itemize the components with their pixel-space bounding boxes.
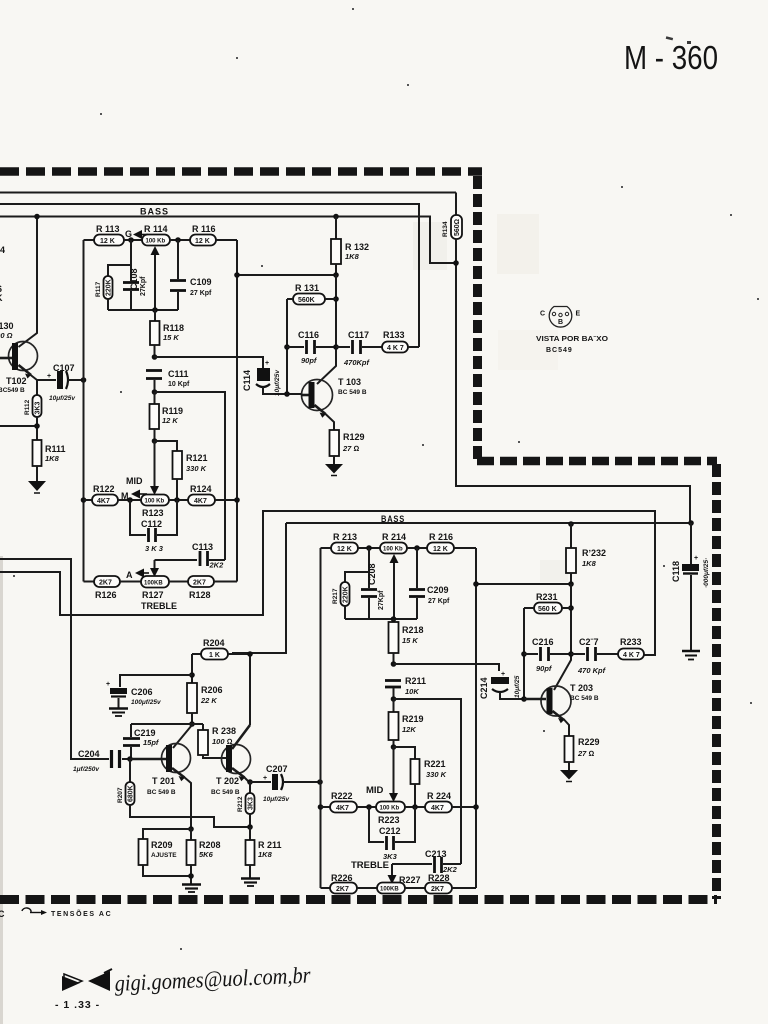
svg-text:T 202: T 202 [216,776,239,786]
svg-text:R 238: R 238 [212,726,236,736]
wire: R207 bottom to R211/R212 node [130,805,250,827]
capacitor C113 [155,542,226,570]
resistor R133 [382,330,419,353]
svg-text:3K3: 3K3 [248,797,255,810]
shield border: right vertical upper [473,176,482,459]
svg-text:T 201: T 201 [152,776,175,786]
resistor R211 [246,827,282,878]
svg-text:R229: R229 [578,737,600,747]
svg-text:C216: C216 [532,637,554,647]
svg-text:E: E [576,311,581,318]
svg-text:R226: R226 [331,873,353,883]
svg-text:gigi.gomes@uol.com,br: gigi.gomes@uol.com,br [114,962,312,996]
node junction R113/R114/C108 [128,237,134,243]
svg-text:C113: C113 [192,542,213,552]
node junction R112/R111 [34,423,40,429]
potentiometer R214 [380,532,427,554]
svg-text:220K: 220K [106,279,113,296]
transistor T202 [211,725,251,796]
capacitor C108 [123,265,147,310]
node junction right rail / R232 row [473,581,479,587]
capacitor C209 [409,548,450,619]
wire: channel2 tone box left rail [320,548,322,888]
svg-text:C: C [540,311,545,318]
svg-text:R218: R218 [402,625,424,635]
svg-text:R207: R207 [117,787,124,803]
ground (below R208) [182,885,201,893]
resistor R112 [24,380,42,440]
svg-text:+: + [265,360,269,367]
node junction C111/R119 row [152,389,158,395]
svg-text:10 Kpf: 10 Kpf [168,381,190,388]
svg-text:R231: R231 [536,592,558,602]
svg-text:27 Ω: 27 Ω [342,444,359,453]
svg-text:Rʼ232: Rʼ232 [582,548,606,558]
node junction R114/R116/C109 [175,237,181,243]
svg-text:10μf/25v: 10μf/25v [263,796,289,803]
capacitor C219 [123,724,160,759]
shield border: right vertical lower [712,464,721,899]
svg-text:R221: R221 [424,759,446,769]
node junction T201 emitter / R208 / R209 [188,826,194,832]
svg-text:TENSÕES AC: TENSÕES AC [51,909,112,918]
wire: R214 wiper arrow [390,554,399,619]
svg-text:- 1 .33 -: - 1 .33 - [55,999,100,1011]
node junction C216/C217/collector [568,651,574,657]
svg-text:3K3: 3K3 [35,402,42,415]
resistor R132 [331,217,369,276]
svg-text:R 113: R 113 [96,224,120,234]
svg-text:12 K: 12 K [100,238,115,245]
resistor R226 [321,873,378,894]
potentiometer R223 [376,802,425,826]
node junction T203 base node [521,696,527,702]
node junction R208/R209 ground node [188,873,194,879]
svg-text:BASS: BASS [381,514,405,525]
node junction R118/C111/C114 row [152,354,158,360]
svg-text:560 K: 560 K [538,606,557,613]
resistor R204 [192,638,250,660]
svg-text:C: C [0,909,5,919]
resistor R117 [95,276,113,310]
wire: R223 wiper arrow [389,747,398,802]
capacitor C112 [130,500,177,553]
resistor R207 [117,759,135,805]
svg-text:R 132: R 132 [345,242,369,252]
svg-text:R227: R227 [399,875,421,885]
wire: row from R211cap to C213 column [394,699,462,864]
title M-360 [624,36,718,76]
wire: from left edge to R112/R111 node [0,425,37,427]
capacitor C206 [106,675,192,708]
legend: tensoes ac symbol [0,908,112,919]
wire: R134 bottom feed to channel2 supply [456,239,690,523]
svg-text:90pf: 90pf [301,356,318,365]
svg-text:M - 360: M - 360 [624,39,718,76]
svg-text:10μf/25v: 10μf/25v [274,370,281,396]
svg-text:BASS: BASS [140,207,169,218]
svg-text:C209: C209 [427,585,449,595]
svg-text:R 116: R 116 [192,224,216,234]
node A marker [126,569,149,581]
node junction mid row / left rail [81,497,87,503]
svg-text:4K7: 4K7 [431,805,444,812]
svg-text:MID: MID [126,476,143,486]
svg-text:R117: R117 [95,281,102,297]
resistor R116 [190,224,237,246]
capacitor C216 [524,637,571,673]
node junction C216 row left [521,651,527,657]
svg-text:+: + [106,681,110,688]
svg-text:2K7: 2K7 [99,580,112,587]
wire: R114 wiper arrow [151,246,160,310]
svg-text:560K: 560K [298,297,315,304]
svg-text:12 K: 12 K [162,416,178,425]
svg-text:C112: C112 [141,519,162,529]
svg-text:2K7: 2K7 [336,886,349,893]
svg-text:90pf: 90pf [536,664,553,673]
resistor R118 [150,310,184,357]
resistor R219 [389,699,424,747]
svg-text:R118: R118 [163,323,184,333]
wire: T201 collector diagonal [173,725,192,748]
svg-text:R217: R217 [332,588,339,604]
resistor R229 [565,736,600,770]
svg-text:1K8: 1K8 [345,252,360,261]
node junction T201 base node [127,756,133,762]
svg-text:C2ˉ7: C2ˉ7 [579,637,599,647]
svg-text:R 216: R 216 [429,532,453,542]
svg-text:4 K 7: 4 K 7 [623,652,640,659]
svg-text:100μf/25v: 100μf/25v [131,699,161,706]
wire: left vertical rail R113-C107-R122-R126 [83,240,85,582]
wire: box top down to T202 collector node [232,523,286,653]
svg-text:C212: C212 [379,826,401,836]
svg-text:MID: MID [366,785,384,796]
wire: feedback column R231/C216 to base [523,608,525,699]
svg-text:12K: 12K [402,725,416,734]
capacitor C117 [336,330,382,367]
ground (below C118) [682,651,700,660]
wire: row to C214 [394,664,500,671]
svg-text:T 203: T 203 [570,683,593,693]
svg-text:100 Ω: 100 Ω [212,737,233,746]
shield border: bottom dashed [0,895,717,904]
ground (below R129) [325,464,343,476]
wire: bottom row of bass RC network [108,309,178,311]
svg-text:BC549: BC549 [546,347,573,354]
svg-text:27 Kpf: 27 Kpf [428,598,450,605]
svg-text:4K7: 4K7 [336,805,349,812]
resistor R233 [618,637,644,660]
svg-text:BC 549 B: BC 549 B [147,789,176,796]
annotation: handwritten triangles [62,969,112,991]
svg-text:2K2: 2K2 [209,561,225,570]
svg-text:4K7: 4K7 [97,498,110,505]
wire: channel2 output/supply rail loop [0,511,655,655]
shield border: middle horizontal [477,457,717,466]
wire: channel1 +V supply rail [0,192,456,194]
svg-text:100 Kb: 100 Kb [383,547,403,553]
svg-text:R206: R206 [201,685,223,695]
svg-text:100 Kb: 100 Kb [146,239,166,245]
resistor R208 [187,829,221,884]
node junction T102 collector rail [34,214,40,220]
svg-text:R133: R133 [383,330,405,340]
node junction R132 bottom [333,272,339,278]
node junction wiper/R218 row (channel2) [391,616,397,622]
svg-text:BC549 B: BC549 B [0,387,25,394]
svg-text:3 K 3: 3 K 3 [145,544,164,553]
ground (below R111) [28,481,46,493]
node junction T202 collector / R204 / box feed [247,651,253,657]
svg-text:R 131: R 131 [295,283,319,293]
potentiometer R227 [377,875,425,894]
svg-text:BC 549 B: BC 549 B [570,695,599,702]
svg-text:R 214: R 214 [382,532,406,542]
capacitor C109 [170,240,212,310]
svg-text:R121: R121 [186,453,208,463]
svg-text:R112: R112 [24,399,31,415]
svg-text:220K: 220K [343,586,350,603]
svg-text:R222: R222 [331,791,353,801]
node junction mid row / right column [234,497,240,503]
node MID marker [121,476,147,501]
wire: T103 collector column [317,275,336,384]
resistor R232 [566,523,606,584]
svg-text:R233: R233 [620,637,642,647]
resistor R221 [394,747,447,807]
svg-text:R211: R211 [405,676,426,686]
node junction C206 tap [189,672,195,678]
svg-text:R130: R130 [0,321,14,331]
node junction C116 row left [284,344,290,350]
svg-text:15 K: 15 K [163,333,179,342]
node junction R211cap/R219 row [391,696,397,702]
svg-text:T102: T102 [6,376,27,386]
wire: channel2 input line from left edge to C204 [0,559,109,759]
svg-text:C204: C204 [78,749,100,759]
node junction C207 / channel2 left rail [317,779,323,785]
svg-text:R128: R128 [189,590,211,600]
wire: R227 wiper arrow [388,864,397,884]
svg-text:1μf/250v: 1μf/250v [73,766,99,773]
svg-text:4K7: 4K7 [194,498,207,505]
node junction C116/C117/collector [333,344,339,350]
svg-text:C117: C117 [348,330,369,340]
svg-text:100 Kb: 100 Kb [145,499,165,505]
node junction R213/R214/C208 [366,545,372,551]
svg-text:C111: C111 [168,369,189,379]
svg-text:·000μf/25·: ·000μf/25· [703,558,710,588]
resistor R128 [188,576,237,600]
node junction base row / feedback column [284,391,290,397]
svg-text:560Ω: 560Ω [454,219,461,236]
svg-text:27 Ω: 27 Ω [577,749,594,758]
label fragment K (cut at left edge) [0,284,3,303]
resistor R111 [33,440,66,481]
transistor T201 [130,744,191,830]
resistor R121 [155,441,208,500]
node junction R122/C112 [127,497,133,503]
wire: R132 bottom to right column [237,274,336,276]
svg-text:C108: C108 [129,268,139,290]
svg-text:AJUSTE: AJUSTE [151,852,177,859]
svg-text:R208: R208 [199,840,221,850]
potentiometer R114 [142,224,190,246]
wire: C108 branch from R113/R114 node [108,240,131,276]
svg-text:T 103: T 103 [338,377,361,387]
capacitor C114 [242,360,301,396]
wire: collector node row (C219 / R238) [131,723,203,725]
wire: channel2 tone box right rail [475,548,477,888]
svg-text:R129: R129 [343,432,365,442]
resistor R212 [237,782,255,827]
resistor R222 [321,791,377,813]
svg-text:C116: C116 [298,330,319,340]
svg-text:27Kpf: 27Kpf [140,276,147,296]
node junction supply rail / R232 [568,521,574,527]
wire: channel1 tone box top rail [0,217,456,264]
wire: T203 collector column [554,584,571,690]
svg-text:R124: R124 [190,484,212,494]
resistor R216 [427,532,476,554]
svg-text:+: + [263,775,267,782]
capacitor C214 [479,671,524,699]
svg-text:100KB: 100KB [380,887,399,893]
svg-text:R127: R127 [142,590,164,600]
svg-text:TREBLE: TREBLE [141,601,177,612]
capacitor C118 [671,523,710,650]
svg-text:C206: C206 [131,687,153,697]
resistor R119 [150,392,184,441]
shield border: top dashed [0,167,482,176]
wire: feedback column R131/C116 to base [286,299,288,394]
capacitor C207 [250,764,320,803]
svg-text:1K8: 1K8 [582,559,597,568]
potentiometer R123 [141,495,188,519]
svg-text:BC 549 B: BC 549 B [211,789,240,796]
svg-text:100 Ω: 100 Ω [0,331,13,340]
capacitor C217 [571,637,618,675]
capacitor C204 [73,749,130,773]
transistor T103 [301,377,367,430]
wire: R123 wiper arrow [150,441,159,495]
node junction wiper/R118 row [152,307,158,313]
resistor R126 [84,576,142,600]
node junction R214/R216/C209 [414,545,420,551]
resistor R209 [139,829,192,876]
svg-text:27 Kpf: 27 Kpf [190,290,212,297]
svg-text:C214: C214 [479,677,489,699]
svg-text:470Kpf: 470Kpf [343,358,371,367]
ground (below C206) [109,709,128,717]
resistor R224 [425,791,476,813]
wire: row from C111 to C113 column [155,392,226,560]
svg-text:R204: R204 [203,638,225,648]
wire: R127 wiper arrow [150,560,159,577]
resistor R231 [524,592,571,614]
resistor R206 [187,683,223,724]
node junction mid row / left rail (channel2) [318,804,324,810]
wire: row to C114 [155,357,264,366]
svg-text:C208: C208 [367,563,377,585]
svg-text:1 K: 1 K [209,652,220,659]
ground (below R211) [241,879,260,887]
resistor R134 [442,193,462,240]
svg-text:330 K: 330 K [426,770,447,779]
svg-text:C109: C109 [190,277,212,287]
node junction R218/R211cap/C214 row [391,661,397,667]
svg-text:A: A [126,570,133,580]
node junction R231 right [568,605,574,611]
svg-text:2K7: 2K7 [431,886,444,893]
svg-text:C219: C219 [134,728,156,738]
node junction R134 bottom / box top feed [453,260,459,266]
node junction R219/R221/wiper [391,744,397,750]
resistor R213 [321,532,381,554]
svg-text:15pf: 15pf [143,738,160,747]
wire: C208/R217 branch [345,548,369,588]
capacitor C107 [37,363,84,402]
transistor pinout detail BC549 (vista por baixo) [536,307,609,355]
svg-text:100KB: 100KB [144,581,163,587]
node junction R132/column [234,272,240,278]
node junction tone box top / R132 [333,214,339,220]
transistor T203 [524,683,599,736]
svg-text:R219: R219 [402,714,424,724]
svg-text:R 213: R 213 [333,532,357,542]
wire: bass network bottom row (channel2) [345,618,417,620]
svg-text:R209: R209 [151,840,173,850]
svg-text:04: 04 [0,245,5,255]
svg-text:K: K [0,293,3,303]
node junction mid row / right rail (channel2) [473,804,479,810]
node junction T201 collector node [189,721,195,727]
svg-text:R122: R122 [93,484,115,494]
svg-text:R111: R111 [45,444,66,454]
svg-text:10μf/25: 10μf/25 [514,675,521,698]
svg-text:12 K: 12 K [195,238,210,245]
svg-text:R 224: R 224 [427,791,451,801]
svg-text:VISTA POR BAˉXO: VISTA POR BAˉXO [536,336,609,343]
svg-text:R228: R228 [428,873,450,883]
svg-text:C114: C114 [242,370,252,391]
wire: channel1 output rail to R133 [0,204,419,347]
svg-text:12 K: 12 K [337,546,352,553]
resistor R228 [425,873,476,894]
node junction R222/R223/C212 [366,804,372,810]
svg-text:B: B [558,319,563,326]
svg-text:12 K: 12 K [433,546,448,553]
svg-text:27Kpf: 27Kpf [378,590,385,610]
svg-text:+: + [47,373,51,380]
svg-text:+: + [694,555,698,562]
node junction C107 / left rail [81,377,87,383]
svg-text:TREBLE: TREBLE [351,860,389,871]
resistor R129 [330,430,365,464]
capacitor R211 (10K) [385,676,426,699]
node junction R232 bottom [568,581,574,587]
scan background smudges [0,214,568,1024]
svg-text:C107: C107 [53,363,75,373]
node junction R121/R124/C112 [174,497,180,503]
svg-text:2K7: 2K7 [193,580,206,587]
svg-text:R134: R134 [442,221,449,237]
svg-text:R223: R223 [378,815,400,825]
capacitor C208 [361,563,385,619]
resistor R238 [198,724,236,758]
